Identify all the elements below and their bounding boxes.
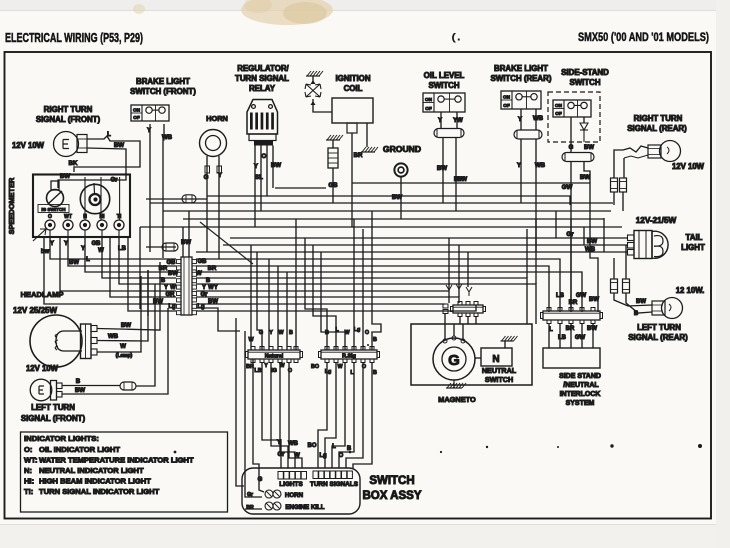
switchbox outer wire 1 bbox=[236, 318, 244, 486]
wire tail Gr bbox=[556, 237, 628, 239]
svg-text:12V 10W: 12V 10W bbox=[672, 162, 705, 171]
wire speedo extra BW bbox=[60, 236, 176, 291]
bus wire y196 bbox=[146, 198, 207, 200]
bus wire y304 bbox=[196, 303, 445, 305]
wire speedo TI bbox=[119, 236, 176, 284]
wire relay pin3 O bbox=[266, 146, 268, 197]
svg-text:BW: BW bbox=[114, 142, 124, 149]
svg-text:R.Sig: R.Sig bbox=[342, 353, 356, 359]
svg-text:N:: N: bbox=[24, 466, 32, 475]
right scanner margin band bbox=[716, 0, 730, 548]
svg-text:B: B bbox=[373, 337, 377, 343]
wire coil BR down bbox=[351, 133, 353, 227]
svg-text:SIGNAL (FRONT): SIGNAL (FRONT) bbox=[21, 414, 86, 423]
drop wire 8 bbox=[313, 245, 336, 350]
svg-text:WB: WB bbox=[535, 162, 546, 169]
svg-text:SIDE-STAND: SIDE-STAND bbox=[561, 68, 609, 77]
svg-text:GROUND: GROUND bbox=[383, 144, 421, 154]
svg-text:Y: Y bbox=[64, 241, 68, 247]
spark plug gap bbox=[305, 84, 321, 97]
connector strip Natural bbox=[246, 347, 303, 363]
svg-text:TURN SIGNAL: TURN SIGNAL bbox=[235, 74, 289, 83]
neutral switch body bbox=[481, 348, 512, 366]
ground above spark plug bbox=[306, 71, 323, 76]
svg-text:12V 10W: 12V 10W bbox=[12, 141, 45, 150]
drop wire 6 bbox=[295, 219, 297, 350]
indicator lights legend box bbox=[21, 432, 228, 512]
top scanner margin band bbox=[0, 0, 730, 11]
svg-text:COIL: COIL bbox=[344, 84, 363, 93]
svg-text:O: O bbox=[365, 330, 369, 336]
wire relay pin2 SL bbox=[260, 146, 262, 212]
wire left-front B bbox=[62, 385, 120, 387]
wire brake-rear Y down bbox=[520, 139, 522, 203]
svg-text:LB: LB bbox=[558, 335, 567, 341]
svg-text:TAIL: TAIL bbox=[686, 233, 703, 242]
bulb right turn signal front bbox=[54, 132, 79, 157]
svg-text:HI: HI bbox=[100, 214, 106, 220]
magneto bar feeds bbox=[459, 317, 461, 325]
wire left-rear B bbox=[626, 293, 652, 313]
wire speedo HI bbox=[102, 236, 176, 278]
bus wire y238 left bbox=[230, 237, 556, 239]
svg-text:YW: YW bbox=[453, 118, 463, 124]
svg-text:TI:: TI: bbox=[24, 487, 33, 496]
svg-text:SWITCH: SWITCH bbox=[369, 475, 414, 487]
wire neutral ground lead bbox=[504, 341, 506, 348]
diagonal wire bbox=[200, 222, 253, 264]
svg-text:WY: WY bbox=[208, 285, 218, 291]
svg-text:BR: BR bbox=[569, 300, 578, 306]
svg-text:Natural: Natural bbox=[265, 353, 284, 359]
wire oil BW 2 bbox=[455, 138, 457, 212]
wire horn Y bbox=[218, 156, 220, 259]
svg-text:B: B bbox=[373, 370, 377, 376]
svg-text:GB: GB bbox=[328, 182, 338, 189]
drop wire 11 bbox=[362, 229, 364, 350]
svg-text:L: L bbox=[549, 327, 553, 333]
strip top feeds bbox=[182, 227, 184, 257]
turn signals connector bbox=[313, 471, 318, 479]
lower-left long run 2 bbox=[147, 270, 149, 316]
switchbox outer wire 3 bbox=[245, 508, 262, 510]
svg-text:SYSTEM: SYSTEM bbox=[566, 400, 595, 407]
svg-text:WT: WT bbox=[64, 214, 72, 220]
svg-text:Gr: Gr bbox=[247, 492, 253, 498]
svg-text:SIGNAL (FRONT): SIGNAL (FRONT) bbox=[36, 115, 101, 124]
svg-text:WB: WB bbox=[108, 333, 119, 340]
svg-text:BW: BW bbox=[587, 326, 597, 332]
svg-text:SWITCH (REAR): SWITCH (REAR) bbox=[491, 74, 552, 83]
svg-text:LIGHTS: LIGHTS bbox=[279, 481, 303, 488]
switchbox wire WB bbox=[280, 363, 295, 468]
wire condenser GB bbox=[332, 168, 334, 203]
svg-text:SMX50 ('00 AND '01 MODELS): SMX50 ('00 AND '01 MODELS) bbox=[578, 30, 709, 44]
svg-text:BW: BW bbox=[392, 194, 402, 201]
bulb left turn rear bbox=[662, 298, 683, 319]
wire fuse B down bbox=[622, 192, 624, 211]
svg-text:GW: GW bbox=[575, 335, 586, 341]
svg-text:O: O bbox=[262, 154, 267, 160]
svg-text:LEFT TURN: LEFT TURN bbox=[31, 403, 75, 412]
ground coil right bbox=[361, 147, 378, 152]
fuse left-rear A bbox=[611, 279, 618, 293]
svg-text:BW: BW bbox=[584, 145, 594, 151]
svg-text:LB: LB bbox=[118, 246, 127, 252]
main harness connector strip bbox=[181, 257, 192, 315]
svg-text:12V 25/25W: 12V 25/25W bbox=[13, 306, 57, 315]
svg-text:TURN SIGNAL INDICATOR LIGHT: TURN SIGNAL INDICATOR LIGHT bbox=[39, 487, 160, 496]
svg-text:BW: BW bbox=[75, 387, 85, 394]
svg-text:LB: LB bbox=[254, 368, 261, 374]
wire to right-turn-rear B bbox=[624, 155, 648, 158]
svg-text:L: L bbox=[107, 132, 111, 138]
lights connector bbox=[278, 472, 283, 480]
switchbox wire Lg bbox=[325, 363, 336, 468]
bus wire y272 bbox=[196, 272, 582, 312]
bus wire y252 bbox=[196, 251, 604, 253]
wire brake-rear leads bbox=[520, 109, 522, 130]
wire tail WB bbox=[604, 251, 628, 253]
svg-text:TURN SIGNALS: TURN SIGNALS bbox=[310, 481, 359, 488]
bus wire y291 bbox=[196, 291, 449, 303]
drop wire 1 bbox=[250, 245, 252, 350]
svg-text:ON: ON bbox=[503, 95, 511, 100]
wire relay pin4 BW bbox=[272, 146, 274, 189]
wire speedo O bbox=[50, 236, 176, 259]
wire side-stand G bbox=[570, 117, 572, 153]
coffee stain top center bbox=[241, 0, 333, 25]
svg-text:REGULATOR/: REGULATOR/ bbox=[237, 64, 289, 73]
svg-text:OIL LEVEL: OIL LEVEL bbox=[424, 71, 465, 80]
svg-text:(Lamp): (Lamp) bbox=[116, 353, 133, 359]
svg-text:Gr: Gr bbox=[566, 231, 574, 238]
svg-text:WB: WB bbox=[162, 134, 173, 141]
side stand dashed box bbox=[548, 92, 600, 142]
wire brake-rear WB down bbox=[535, 139, 537, 252]
svg-text:W: W bbox=[170, 285, 176, 291]
wire left-rear BW bbox=[614, 293, 652, 306]
svg-text:/NEUTRAL: /NEUTRAL bbox=[563, 382, 599, 389]
svg-text:BO: BO bbox=[311, 364, 319, 370]
wire neutral to G bbox=[475, 357, 481, 359]
switchbox wire W bbox=[289, 363, 302, 468]
wire speedo WT bbox=[68, 236, 176, 266]
connector on B wire bbox=[120, 382, 136, 390]
magneto ground bbox=[453, 380, 455, 388]
bus wire y266 bbox=[196, 266, 549, 312]
svg-text:RIGHT TURN: RIGHT TURN bbox=[634, 114, 683, 123]
wire side-stand BW down bbox=[584, 162, 598, 313]
svg-text:12 10W.: 12 10W. bbox=[676, 286, 705, 295]
bottom scanner margin band bbox=[0, 524, 730, 548]
svg-text:LB: LB bbox=[556, 293, 565, 299]
svg-text:N: N bbox=[492, 354, 499, 365]
switch box assy outline bbox=[242, 468, 360, 514]
svg-text:Y: Y bbox=[269, 330, 273, 336]
bus wire y297 bbox=[196, 297, 459, 303]
wire tail BW bbox=[584, 244, 628, 246]
svg-text:Y: Y bbox=[438, 118, 442, 124]
fuse left-rear B bbox=[623, 279, 630, 293]
bus wire y203 bbox=[150, 202, 613, 204]
svg-text:OIL INDICATOR LIGHT: OIL INDICATOR LIGHT bbox=[39, 445, 120, 454]
svg-text:BK: BK bbox=[69, 160, 78, 167]
switchbox wire BO bbox=[318, 363, 327, 468]
switchbox wire B bbox=[346, 363, 363, 468]
wire fuse A down bbox=[613, 192, 615, 205]
ground neutral switch bbox=[501, 336, 518, 341]
svg-text:BW: BW bbox=[69, 260, 79, 266]
svg-text:HORN: HORN bbox=[285, 492, 304, 499]
wire side-stand GW down bbox=[570, 162, 572, 313]
bus wire y284 bbox=[196, 284, 536, 324]
svg-text:GW: GW bbox=[576, 293, 587, 299]
oil switch connector bbox=[434, 129, 464, 138]
svg-text:B: B bbox=[634, 311, 639, 317]
svg-text:BW: BW bbox=[587, 238, 597, 245]
svg-text:L: L bbox=[332, 444, 336, 450]
wire tail BW vertical bbox=[583, 227, 585, 245]
svg-text:GB: GB bbox=[92, 241, 102, 247]
condenser body bbox=[328, 148, 338, 168]
svg-text:12V-21/5W: 12V-21/5W bbox=[636, 216, 677, 225]
magneto box bbox=[411, 324, 532, 385]
relay U1 body bbox=[247, 100, 278, 135]
wire tail Gr vertical bbox=[555, 211, 557, 238]
headlamp bulb bbox=[30, 315, 82, 367]
ground terminal symbol bbox=[394, 163, 407, 176]
svg-text:O: O bbox=[339, 453, 344, 459]
svg-text:HORN: HORN bbox=[206, 114, 228, 123]
svg-text:WATER TEMPERATURE INDICATOR LI: WATER TEMPERATURE INDICATOR LIGHT bbox=[39, 456, 194, 465]
svg-text:ELECTRICAL WIRING (P53, P29): ELECTRICAL WIRING (P53, P29) bbox=[5, 30, 143, 45]
bus wire y258 bbox=[196, 259, 560, 312]
bus wire y278 bbox=[196, 278, 527, 324]
svg-text:MAGNETO: MAGNETO bbox=[438, 395, 476, 404]
svg-text:SWITCH: SWITCH bbox=[569, 78, 600, 87]
svg-text:ON: ON bbox=[425, 97, 433, 102]
svg-text:NEUTRAL INDICATOR LIGHT: NEUTRAL INDICATOR LIGHT bbox=[39, 466, 144, 475]
svg-text:GB: GB bbox=[198, 259, 208, 265]
wire coil right to ground bbox=[366, 123, 368, 147]
switchbox wire Gr bbox=[271, 363, 288, 468]
ignition switch in speedometer bbox=[47, 190, 64, 207]
wire relay pin1 Y bbox=[254, 146, 256, 228]
brake rear connector bbox=[514, 130, 542, 139]
drop wire 2 bbox=[257, 252, 262, 350]
svg-text:( .: ( . bbox=[452, 32, 460, 42]
wire horn G bbox=[206, 156, 208, 252]
svg-text:BW: BW bbox=[636, 299, 646, 305]
fuse right B bbox=[620, 178, 627, 192]
svg-text:BRAKE LIGHT: BRAKE LIGHT bbox=[494, 64, 548, 73]
drop wire 7 bbox=[305, 238, 327, 350]
svg-text:B: B bbox=[206, 278, 211, 284]
ignition coil body bbox=[332, 98, 373, 123]
drop wire 12 bbox=[372, 211, 381, 350]
wire oil BW 1 bbox=[442, 138, 444, 204]
wire brake-front WB bbox=[163, 124, 164, 258]
svg-text:bw: bw bbox=[41, 249, 50, 255]
svg-text:LEFT TURN: LEFT TURN bbox=[637, 323, 681, 332]
svg-text:BR: BR bbox=[354, 152, 363, 159]
magneto pin connectors bbox=[443, 304, 448, 308]
svg-text:SWITCH: SWITCH bbox=[428, 81, 459, 90]
svg-text:BW: BW bbox=[580, 174, 590, 181]
drop wire 5 bbox=[286, 272, 288, 350]
wire speedo N bbox=[85, 236, 176, 272]
magneto top leads bbox=[444, 324, 446, 339]
wire oil-switch leads bbox=[440, 112, 442, 128]
wire brake-front Y bbox=[149, 124, 151, 252]
svg-text:G: G bbox=[569, 145, 574, 151]
svg-text:W: W bbox=[98, 248, 104, 254]
connector strip Rear bbox=[319, 347, 380, 363]
svg-text:BW: BW bbox=[271, 162, 281, 169]
interlock connector bar bbox=[541, 308, 603, 324]
svg-text:WT:: WT: bbox=[24, 456, 38, 465]
switchbox wire 6 bbox=[353, 363, 372, 468]
speedometer gauge dial bbox=[80, 184, 109, 213]
svg-text:BW: BW bbox=[121, 322, 131, 329]
switchbox wire G bbox=[253, 360, 264, 493]
tail light bulb bbox=[634, 231, 652, 259]
wire ground BW bbox=[400, 177, 402, 219]
oil level switch body bbox=[423, 93, 465, 112]
speedometer indicator terminals O WT N HI TI bbox=[45, 220, 55, 230]
svg-text:Gr: Gr bbox=[110, 178, 118, 184]
fuse oval on y247 bbox=[162, 243, 178, 251]
wire left low 2 bbox=[128, 236, 176, 311]
svg-text:OF: OF bbox=[425, 106, 432, 111]
svg-text:B: B bbox=[76, 378, 81, 385]
magneto connector bar bbox=[451, 302, 486, 317]
svg-text:OF: OF bbox=[133, 115, 140, 120]
drop wire 3 bbox=[268, 259, 270, 350]
svg-text:O:: O: bbox=[24, 445, 32, 454]
bus wire y188 bbox=[275, 187, 326, 189]
svg-text:B: B bbox=[289, 330, 293, 336]
svg-text:W: W bbox=[294, 453, 300, 459]
svg-text:HIGH BEAM INDICATOR LIGHT: HIGH BEAM INDICATOR LIGHT bbox=[39, 477, 151, 486]
svg-text:ON: ON bbox=[133, 108, 141, 113]
fuse oval on y196 bbox=[182, 195, 196, 203]
svg-text:BOX ASSY: BOX ASSY bbox=[362, 490, 421, 502]
bulb left turn front bbox=[30, 379, 52, 401]
arrow to terminal O bbox=[33, 229, 46, 241]
svg-text:HEADLAMP: HEADLAMP bbox=[20, 290, 63, 299]
coil terminal block bbox=[347, 123, 357, 133]
svg-text:Lg: Lg bbox=[168, 304, 176, 310]
brake light switch rear body bbox=[501, 91, 541, 109]
svg-text:GB: GB bbox=[167, 260, 177, 266]
right lower vertical bbox=[196, 308, 240, 331]
interlock box bbox=[543, 348, 600, 368]
svg-text:O: O bbox=[48, 214, 52, 220]
svg-text:BW: BW bbox=[457, 176, 467, 183]
horn body bbox=[200, 130, 227, 157]
wire headlamp BW bbox=[97, 262, 160, 330]
wire right-turn-front lead L bbox=[74, 136, 140, 172]
bus wire y245 bbox=[223, 244, 584, 246]
svg-text:NEUTRAL: NEUTRAL bbox=[482, 366, 517, 375]
svg-text:BRAKE LIGHT: BRAKE LIGHT bbox=[136, 77, 190, 86]
svg-text:Lg: Lg bbox=[197, 304, 205, 310]
svg-text:Lg: Lg bbox=[354, 327, 361, 333]
brake light switch front body bbox=[131, 105, 169, 121]
svg-text:Lg: Lg bbox=[319, 453, 327, 459]
svg-text:ENGINE KILL: ENGINE KILL bbox=[285, 504, 324, 511]
svg-text:Y: Y bbox=[147, 128, 151, 134]
svg-text:IGNITION: IGNITION bbox=[335, 74, 370, 83]
svg-text:LIGHT: LIGHT bbox=[681, 243, 705, 252]
switchbox wire O bbox=[339, 363, 354, 468]
svg-text:BO: BO bbox=[308, 443, 317, 449]
svg-text:G: G bbox=[204, 174, 209, 181]
interlock bar to box wires bbox=[548, 324, 550, 348]
svg-text:SWITCH: SWITCH bbox=[485, 375, 513, 384]
svg-text:BR: BR bbox=[159, 266, 168, 272]
svg-text:G: G bbox=[259, 330, 263, 336]
bus wire y219 bbox=[183, 218, 604, 220]
switchbox wire Y bbox=[262, 363, 281, 468]
drop wire 4 bbox=[277, 266, 279, 350]
drop wire 10 bbox=[353, 219, 355, 350]
svg-text:BW: BW bbox=[437, 165, 447, 172]
svg-text:12V 10W: 12V 10W bbox=[26, 364, 59, 373]
svg-text:Y: Y bbox=[81, 246, 85, 252]
wire spark plug to coil bbox=[313, 99, 332, 112]
svg-text:Gr: Gr bbox=[277, 452, 285, 458]
svg-text:INDICATOR LIGHTS:: INDICATOR LIGHTS: bbox=[24, 434, 99, 443]
svg-text:SIGNAL (REAR): SIGNAL (REAR) bbox=[627, 124, 687, 133]
svg-text:G: G bbox=[448, 352, 460, 369]
svg-text:B: B bbox=[325, 330, 329, 336]
svg-text:INTERLOCK: INTERLOCK bbox=[560, 391, 601, 398]
bus wire y227 bbox=[140, 226, 622, 228]
magneto generator G bbox=[433, 338, 475, 380]
side stand connector bbox=[562, 153, 594, 162]
bus wire y183 bbox=[352, 182, 590, 184]
wire speedo extra Lg bbox=[110, 236, 176, 297]
svg-text:ON: ON bbox=[555, 103, 563, 108]
wire B to vertical bbox=[136, 284, 155, 386]
wire tail WB vertical bbox=[603, 218, 605, 252]
svg-text:SL: SL bbox=[255, 174, 263, 181]
fuse right A bbox=[611, 178, 618, 192]
side stand diode bbox=[583, 117, 585, 123]
bulb right turn rear bbox=[660, 141, 681, 162]
wire left-front BW bbox=[62, 308, 168, 394]
side stand switch body bbox=[553, 100, 591, 117]
svg-text:Lg: Lg bbox=[325, 369, 332, 375]
horn buttons bbox=[265, 490, 273, 498]
switchbox wire L bbox=[332, 363, 345, 468]
svg-text:SIGNAL (REAR): SIGNAL (REAR) bbox=[628, 333, 688, 342]
bus wire y311 bbox=[196, 305, 476, 311]
wire to right-turn-rear A bbox=[623, 146, 648, 152]
svg-text:SPEEDOMETER: SPEEDOMETER bbox=[7, 177, 16, 234]
svg-text:Y: Y bbox=[264, 363, 268, 369]
svg-text:SWITCH (FRONT): SWITCH (FRONT) bbox=[130, 87, 196, 96]
wire right-turn-front lead BW bbox=[58, 148, 126, 188]
svg-text:WB: WB bbox=[533, 115, 544, 122]
svg-text:IG: IG bbox=[271, 368, 277, 374]
bus wire y211 bbox=[163, 210, 611, 212]
svg-text:L: L bbox=[86, 257, 90, 263]
svg-text:OF: OF bbox=[503, 103, 510, 108]
